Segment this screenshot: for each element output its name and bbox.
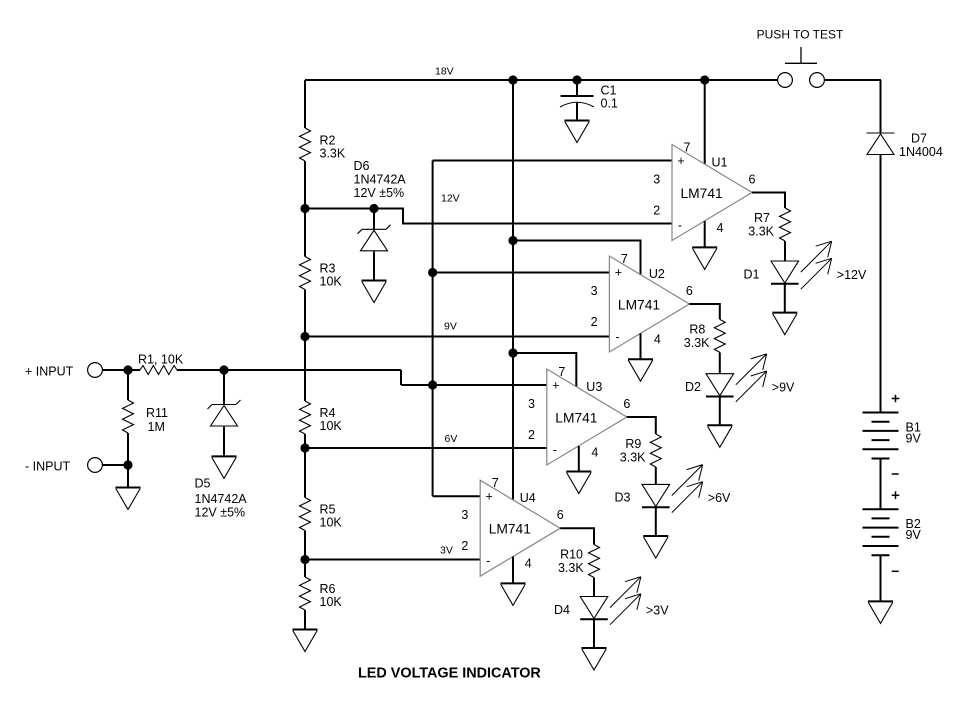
svg-text:10K: 10K [320,595,343,609]
svg-text:2: 2 [461,539,468,553]
svg-text:2: 2 [528,428,535,442]
svg-text:D7: D7 [911,132,927,146]
ground (D5) [212,456,237,478]
svg-text:9V: 9V [906,528,922,542]
ground (D3) [643,536,668,558]
svg-text:1N4742A: 1N4742A [195,492,248,506]
op-amp U1 [653,141,755,241]
svg-text:4: 4 [591,446,598,460]
svg-text:12V: 12V [441,193,460,205]
wire input bus to U1 pin3 [433,160,672,162]
wire R10 to D4 [593,578,595,597]
svg-text:-: - [678,219,682,233]
switch PUSH TO TEST [757,28,844,88]
wire B2 to ground [880,555,882,601]
svg-text:-: - [553,443,557,457]
svg-text:+: + [486,490,493,504]
wire U1 pin4 to ground [704,221,706,247]
wire D3 to ground [655,507,657,536]
svg-text:3.3K: 3.3K [620,451,646,465]
junction (input joins bus) [428,380,437,389]
wire U4 output to R10 [560,528,594,544]
ground (D2) [707,425,732,447]
wire R9 to D3 [655,467,657,484]
svg-text:R2: R2 [320,134,336,148]
svg-text:>6V: >6V [708,491,731,505]
junction (+input / R11) [123,365,132,374]
node 12V label [441,193,460,205]
wire op-amp supply bus [512,80,514,500]
LED D2 [685,354,795,402]
junction (D5 tap) [219,365,228,374]
resistor R3 [300,257,343,290]
svg-text:C1: C1 [601,84,617,98]
wire U3 output to R9 [627,417,656,434]
svg-text:R8: R8 [689,323,705,337]
svg-text:+: + [615,266,622,280]
wire R7 to D1 [784,241,786,261]
wire U4 pin4 to ground [512,557,514,584]
svg-text:10K: 10K [320,419,343,433]
diode D7 [867,132,943,160]
svg-text:R7: R7 [754,211,770,225]
battery B1 [863,395,922,474]
resistor R5 [300,498,343,531]
svg-text:D6: D6 [354,159,370,173]
wire U3 pin4 to ground [578,446,580,472]
wire input signal bus [432,161,434,497]
wire supply to U3 pin7 [513,353,576,387]
ground (D4) [582,648,607,670]
node 9V label [444,321,457,333]
op-amp U4 [461,476,563,576]
wire switch to D7 [880,80,883,133]
svg-text:6V: 6V [445,433,458,445]
resistor R9 [620,434,662,467]
svg-text:0.1: 0.1 [601,97,618,111]
wire R1 to input bus [177,370,433,385]
wire left divider bus [304,80,306,630]
resistor R1 [138,353,184,375]
junction (supply bus at rail) [508,75,517,84]
node 3V label [440,545,453,557]
LED D4 [554,577,669,625]
svg-text:R5: R5 [320,503,336,517]
wire B1 to B2 [880,459,882,510]
svg-text:R1, 10K: R1, 10K [138,353,184,367]
svg-text:3V: 3V [440,545,453,557]
battery B2 [863,491,922,571]
wire +input to R1 [102,369,140,371]
svg-text:3: 3 [461,508,468,522]
svg-text:R4: R4 [320,406,336,420]
svg-text:3.3K: 3.3K [748,225,774,239]
svg-text:R6: R6 [320,582,336,596]
svg-text:3.3K: 3.3K [320,147,346,161]
wire -input [102,464,128,466]
wire supply to U2 pin7 [513,241,641,276]
wire D6 anode [373,252,375,281]
svg-text:D1: D1 [744,268,760,282]
svg-text:18V: 18V [435,66,454,78]
svg-text:LED VOLTAGE INDICATOR: LED VOLTAGE INDICATOR [358,666,541,682]
title LED VOLTAGE INDICATOR [358,666,541,682]
svg-text:D3: D3 [615,491,631,505]
svg-text:1M: 1M [148,420,165,434]
svg-text:7: 7 [621,252,628,266]
ground (U1) [692,247,717,269]
junction node 9V [300,332,309,341]
svg-text:1N4742A: 1N4742A [354,173,407,187]
wire input bus to U4 pin3 [433,495,481,497]
junction node 12V (D6 tap) [369,204,378,213]
ground (divider bottom) [293,630,318,652]
junction (U3 supply tap) [508,348,517,357]
svg-text:3.3K: 3.3K [684,336,710,350]
junction (C1 tap) [572,75,581,84]
wire U2 pin4 to ground [640,333,642,359]
capacitor C1 [560,80,618,121]
svg-text:4: 4 [717,221,724,235]
resistor R4 [300,401,343,434]
svg-text:12V ±5%: 12V ±5% [354,186,405,200]
svg-text:- INPUT: - INPUT [25,460,71,474]
svg-text:3: 3 [653,173,660,187]
ground (-input) [116,488,141,510]
svg-text:6: 6 [686,284,693,298]
svg-text:>9V: >9V [772,381,795,395]
wire D4 to ground [593,620,595,649]
ground (U3) [566,472,591,494]
wire D2 to ground [719,397,721,426]
svg-text:3: 3 [591,284,598,298]
svg-text:D2: D2 [685,380,701,394]
ground (B2) [868,601,893,623]
svg-text:2: 2 [591,315,598,329]
terminal - INPUT [25,458,102,474]
terminal + INPUT [25,363,102,379]
wire input bus to U2 pin3 [433,272,610,274]
svg-text:+: + [677,154,684,168]
svg-text:6: 6 [623,397,630,411]
svg-text:R3: R3 [320,262,336,276]
wire 18V supply rail [305,79,881,81]
resistor R10 [558,545,600,578]
wire 9V reference to U2 pin2 [305,336,609,338]
op-amp U2 [591,252,693,352]
wire 6V reference to U3 pin2 [305,447,547,449]
junction (U1 supply tap) [700,75,709,84]
ground (U2) [628,359,653,381]
svg-text:R10: R10 [560,548,583,562]
svg-text:-: - [486,554,490,568]
svg-text:10K: 10K [320,275,343,289]
svg-text:12V ±5%: 12V ±5% [195,506,246,520]
svg-text:6: 6 [557,508,564,522]
svg-text:D4: D4 [554,603,570,617]
svg-text:-: - [615,330,619,344]
svg-text:9V: 9V [444,321,457,333]
svg-text:LM741: LM741 [555,411,597,426]
ground (D6) [362,281,387,303]
wire -input to ground [127,465,129,488]
node 6V label [445,433,458,445]
junction node 12V (R2/R3) [300,204,309,213]
wire U2 output to R8 [689,304,719,319]
svg-text:4: 4 [654,333,661,347]
junction (U2 supply tap) [508,236,517,245]
svg-text:U1: U1 [712,156,728,170]
svg-text:7: 7 [558,365,565,379]
svg-text:3.3K: 3.3K [558,561,584,575]
resistor R8 [684,319,726,352]
wire R8 to D2 [719,352,721,373]
svg-text:10K: 10K [320,516,343,530]
ground (D1) [772,313,797,335]
ground (U4) [501,583,526,605]
svg-text:PUSH TO TEST: PUSH TO TEST [757,28,844,42]
wire supply to U1 pin7 [704,80,706,164]
ground (C1) [565,121,590,143]
svg-text:>12V: >12V [837,268,867,282]
svg-text:LM741: LM741 [681,186,723,201]
svg-text:R11: R11 [146,406,168,420]
junction (U2 pin3) [428,268,437,277]
svg-text:U2: U2 [649,267,665,281]
op-amp U3 [528,365,630,465]
node 18V label [435,66,454,78]
zener diode D5 [195,370,248,520]
svg-text:2: 2 [653,204,660,218]
svg-text:U4: U4 [520,491,536,505]
wire D5 anode [223,427,225,457]
svg-text:7: 7 [684,141,691,155]
junction node 3V [300,555,309,564]
wire input bus to U3 pin3 [433,384,547,386]
resistor R7 [748,208,790,241]
svg-text:1N4004: 1N4004 [899,145,943,159]
wire U1 output to R7 [752,193,785,209]
LED D3 [615,465,732,513]
wire D1 to ground [784,284,786,313]
junction (-input / R11) [123,460,132,469]
resistor R6 [300,577,343,610]
wire 12V reference to U1 pin2 [374,209,672,224]
svg-text:D5: D5 [195,477,211,491]
svg-text:+: + [552,379,559,393]
svg-text:3: 3 [528,397,535,411]
svg-text:R9: R9 [625,437,641,451]
wire 3V reference to U4 pin2 [305,559,480,561]
svg-text:LM741: LM741 [618,298,660,313]
svg-text:9V: 9V [906,432,922,446]
svg-text:6: 6 [749,173,756,187]
resistor R11 [123,370,169,465]
resistor R2 [300,128,346,161]
wire D7 to B1 [880,155,882,413]
junction node 6V [300,443,309,452]
svg-text:4: 4 [525,557,532,571]
LED D1 [744,241,867,289]
svg-text:LM741: LM741 [489,522,531,537]
wire 12V node to D6 [305,208,374,210]
svg-text:>3V: >3V [646,604,669,618]
svg-text:7: 7 [492,476,499,490]
svg-text:U3: U3 [586,380,602,394]
svg-text:+ INPUT: + INPUT [25,365,74,379]
zener diode D6 [354,159,407,251]
